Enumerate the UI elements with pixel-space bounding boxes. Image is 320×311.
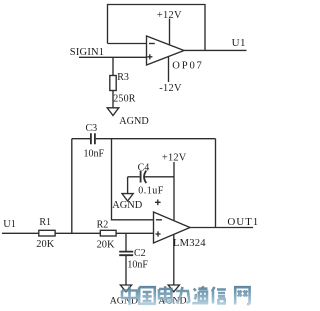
pin minus marker OP07: [149, 43, 155, 45]
wire negative supply stub LM324: [173, 234, 175, 285]
svg-text:C2: C2: [134, 248, 146, 259]
ground AGND under R3: [107, 108, 119, 116]
resistor R2: [100, 230, 116, 236]
wire R3 bottom lead: [112, 91, 114, 108]
ground AGND under C2: [120, 285, 131, 292]
svg-text:C3: C3: [86, 123, 98, 134]
svg-text:AGND: AGND: [112, 200, 143, 211]
wire LM324 output: [190, 227, 253, 229]
wire node A vertical: [71, 139, 73, 234]
capacitor C3: [91, 133, 95, 144]
wire C3 left: [72, 138, 90, 140]
svg-text:OUT1: OUT1: [227, 216, 259, 228]
resistor R3: [110, 76, 116, 91]
svg-text:+12V: +12V: [157, 10, 182, 21]
svg-text:20K: 20K: [97, 239, 115, 250]
pin plus marker LM324: [155, 231, 160, 236]
wire C3 right: [96, 138, 216, 140]
wire input chain U1 R1 R2: [2, 232, 154, 234]
pin plus supply marker LM324: [155, 200, 161, 206]
ground AGND under LM324: [168, 285, 179, 292]
op-amp U1 OP07 triangle: [147, 36, 185, 65]
svg-text:U1: U1: [3, 219, 16, 230]
wire inverting input OP07: [108, 43, 147, 45]
wire SIGIN1 to non-inverting input: [79, 56, 147, 58]
svg-text:-12V: -12V: [159, 83, 182, 94]
svg-text:C4: C4: [138, 163, 150, 174]
wire +12V stub OP07: [169, 19, 171, 45]
svg-text:OP07: OP07: [172, 61, 203, 72]
capacitor C2: [119, 252, 133, 256]
wire C2 bottom lead: [125, 255, 127, 285]
svg-text:R1: R1: [39, 217, 51, 228]
watermark zhongguo dianli tongxin wang: [122, 286, 250, 305]
svg-text:20K: 20K: [36, 239, 54, 250]
capacitor C4: [140, 171, 142, 183]
wire -12V stub OP07: [168, 57, 170, 82]
op-amp U2 LM324 triangle: [154, 212, 191, 243]
svg-text:250R: 250R: [113, 94, 136, 105]
wire R3 top lead: [112, 57, 114, 75]
wire C2 top lead: [125, 233, 127, 251]
wire C4 right: [144, 176, 174, 178]
wire C4 left: [128, 176, 140, 178]
wire feedback loop U1 top: [108, 5, 206, 51]
svg-text:LM324: LM324: [173, 238, 206, 249]
svg-text:U1: U1: [232, 37, 246, 49]
wire inverting net to LM324: [112, 139, 154, 220]
svg-text:0.1uF: 0.1uF: [138, 185, 164, 196]
wire +12V rail LM324: [173, 162, 175, 221]
pin plus marker OP07: [147, 54, 152, 59]
wire OP07 output: [184, 49, 247, 51]
svg-text:10nF: 10nF: [84, 149, 105, 160]
ground AGND under C4: [122, 194, 133, 201]
resistor R1: [39, 230, 55, 236]
wire C4 ground leg: [127, 177, 129, 194]
svg-text:R3: R3: [117, 72, 129, 83]
svg-text:R2: R2: [97, 220, 109, 231]
wire feedback to output: [215, 139, 217, 228]
svg-text:AGND: AGND: [119, 116, 148, 127]
svg-text:10nF: 10nF: [127, 259, 148, 270]
svg-text:SIGIN1: SIGIN1: [70, 47, 104, 58]
svg-text:+12V: +12V: [162, 153, 187, 164]
pin minus marker LM324: [156, 219, 162, 221]
